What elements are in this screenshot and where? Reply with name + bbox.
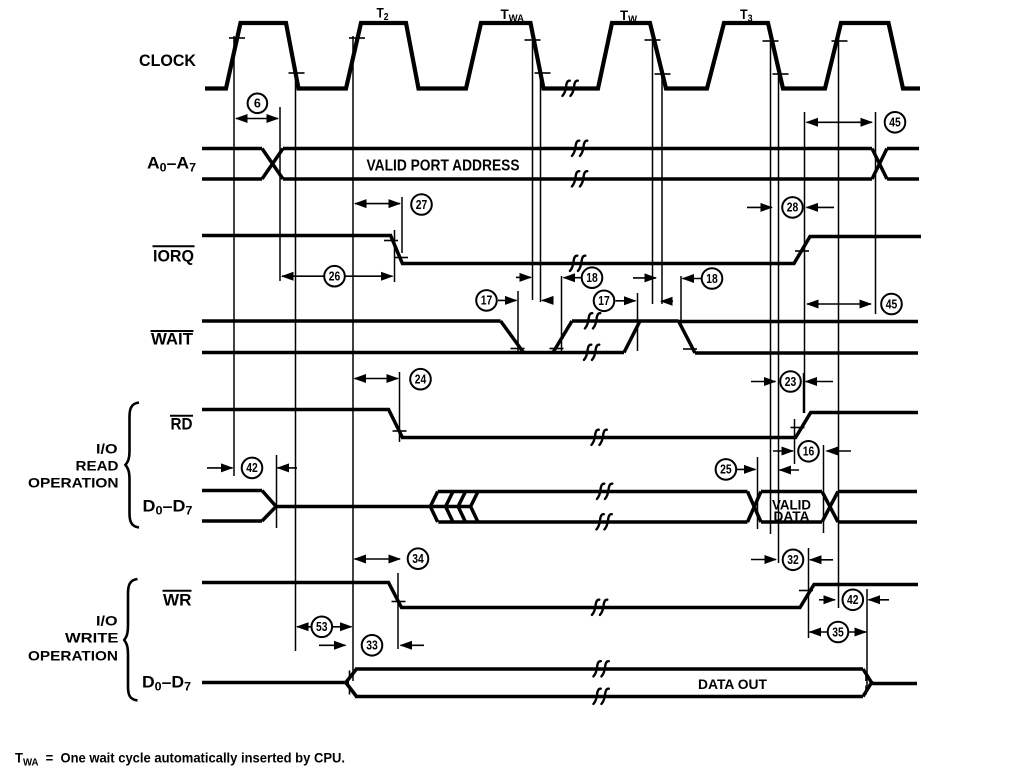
reference line clock rise T1 <box>233 36 235 476</box>
D0-D7 read bottom line <box>438 520 747 524</box>
D0-D7 read chevron 1 <box>430 492 437 507</box>
dim 26 arrow <box>282 275 393 277</box>
svg-text:WRITE: WRITE <box>65 629 119 645</box>
svg-text:17: 17 <box>598 294 610 308</box>
brace write operation <box>124 579 137 701</box>
tick clock rise T2 <box>349 37 365 39</box>
WR break <box>592 600 607 615</box>
dim 25 circle <box>716 459 737 480</box>
tick clock fall T1 <box>289 72 305 74</box>
D0-D7 write diverge <box>345 669 357 684</box>
dim 28 right arrow <box>807 206 835 208</box>
reference line T3 fall lower <box>778 75 780 563</box>
dim 16 circle <box>798 441 819 462</box>
reference line WAIT fall B <box>680 276 682 321</box>
tick WAIT fall A <box>511 348 525 350</box>
A0-A7 bus bottom valid <box>283 177 872 181</box>
dim 18b circle <box>702 268 723 289</box>
tick clock fall T3 upper <box>763 40 779 42</box>
dim 53 arrow <box>297 626 352 628</box>
dim 16 left arrow <box>773 450 793 452</box>
D0-D7 read chevron 4 <box>471 492 478 507</box>
D0-D7 write break bottom <box>593 689 608 704</box>
reference line valid data end <box>823 445 825 533</box>
dim 33 left arrow <box>319 644 346 646</box>
tick RD rise <box>791 427 805 429</box>
svg-text:42: 42 <box>246 461 258 475</box>
reference line dim24 right <box>399 372 401 442</box>
label IORQ overline <box>153 245 195 247</box>
dim 23 circle <box>780 371 801 392</box>
WAIT high break <box>585 313 600 328</box>
tick data out end top <box>865 672 867 681</box>
dim 35 circle <box>828 622 849 643</box>
tick data out end bottom <box>865 686 867 695</box>
D0-D7 read tristate line <box>276 505 471 509</box>
D0-D7 read top left <box>202 489 262 493</box>
dim 24 arrow <box>355 378 399 380</box>
clock break <box>562 81 577 96</box>
tick WAIT fall B <box>683 348 697 350</box>
reference line RD rise <box>794 419 796 464</box>
A0-A7 bus top right <box>887 147 919 151</box>
D0-D7 write top line <box>355 667 863 671</box>
D0-D7 read bottom left <box>202 519 262 523</box>
dim 6 arrow <box>236 118 278 120</box>
dim 34 circle <box>408 548 429 569</box>
IORQ waveform <box>202 236 921 264</box>
svg-text:25: 25 <box>720 463 732 477</box>
svg-text:18: 18 <box>586 271 598 285</box>
tick IORQ rise <box>795 250 809 252</box>
dim 32 right arrow <box>810 559 833 561</box>
D0-D7 valid bottom <box>761 520 822 524</box>
A0-A7 break top <box>572 141 587 156</box>
tick IORQ fall upper <box>384 240 398 242</box>
tick WR rise <box>799 590 813 592</box>
tick data out start bottom <box>349 686 351 695</box>
reference line WR fall <box>397 573 399 649</box>
dim 18b right arrow <box>683 278 702 280</box>
dim 42 circle write <box>843 590 864 611</box>
D0-D7 read crossover left <box>748 492 762 523</box>
svg-text:33: 33 <box>366 639 378 653</box>
dim 6 circle <box>248 94 268 114</box>
reference line dim27 right <box>401 197 403 253</box>
D0-D7 read top line <box>438 490 748 494</box>
svg-text:34: 34 <box>412 552 424 566</box>
tick clock fall T3 lower <box>773 73 789 75</box>
D0-D7 read break bottom <box>596 514 611 529</box>
A0-A7 crossover left <box>262 149 283 180</box>
reference line TWA fall upper <box>532 41 534 300</box>
reference line D0-D7 read converge <box>276 455 278 528</box>
dim 17a left arrow <box>498 299 517 301</box>
reference line data out end <box>866 589 868 686</box>
tick IORQ fall lower <box>394 257 408 259</box>
svg-text:42: 42 <box>847 593 859 607</box>
reference line valid data start <box>757 457 759 529</box>
dim 18a circle <box>582 267 603 288</box>
A0-A7 crossover right <box>872 149 887 180</box>
dim 45 circle top <box>885 112 906 133</box>
D0-D7 write tail line <box>871 682 917 686</box>
dim 25 left arrow <box>737 468 756 470</box>
svg-text:6: 6 <box>254 97 261 111</box>
reference line clock fall T1 <box>295 74 297 651</box>
reference line address change <box>875 112 877 314</box>
WAIT rise A <box>553 321 572 353</box>
RD break <box>591 430 606 445</box>
dim 42 circle read <box>242 458 263 479</box>
D0-D7 write converge <box>863 669 873 684</box>
svg-text:16: 16 <box>803 445 815 459</box>
dim 17a right arrow <box>542 299 553 301</box>
svg-text:D0–D7: D0–D7 <box>143 497 193 518</box>
dim 42 right arrow read <box>278 467 298 469</box>
svg-text:53: 53 <box>316 620 328 634</box>
WAIT high line left <box>202 319 501 323</box>
svg-text:VALID PORT ADDRESS: VALID PORT ADDRESS <box>367 158 520 175</box>
dim 42 left arrow read <box>207 467 233 469</box>
dim 33 right arrow <box>401 644 425 646</box>
tick RD fall <box>393 430 407 432</box>
svg-text:32: 32 <box>787 553 799 567</box>
reference line WAIT rise A <box>561 276 563 351</box>
svg-text:OPERATION: OPERATION <box>28 475 119 491</box>
D0-D7 write tristate line <box>202 681 349 685</box>
svg-text:DATA OUT: DATA OUT <box>698 676 767 692</box>
dim 26 circle <box>324 266 345 287</box>
dim 28 circle <box>782 197 803 218</box>
svg-text:I/O: I/O <box>96 612 118 628</box>
dim 34 arrow <box>355 558 401 560</box>
reference line WAIT rise B <box>637 293 639 351</box>
dim 27 arrow <box>355 203 400 205</box>
WR waveform <box>202 583 918 608</box>
A0-A7 break bottom <box>572 171 587 186</box>
svg-text:WAIT: WAIT <box>151 330 194 349</box>
dim 16 right arrow <box>827 450 852 452</box>
WAIT high line mid <box>572 319 679 323</box>
tick data out start top <box>349 671 351 680</box>
dim 33 circle <box>362 635 383 656</box>
RD waveform <box>202 410 918 438</box>
A0-A7 bus top left <box>202 147 262 151</box>
svg-text:WR: WR <box>163 591 192 610</box>
D0-D7 read chevron 3 <box>458 492 465 507</box>
WAIT fall A <box>501 321 524 353</box>
reference line IORQ fall <box>394 230 396 282</box>
dim 18a left arrow <box>516 276 531 278</box>
svg-text:23: 23 <box>785 375 797 389</box>
reference line WAIT fall <box>517 291 519 351</box>
dim 17b circle <box>594 291 615 312</box>
WAIT low line right <box>695 351 918 355</box>
dim 32 left arrow <box>751 559 776 561</box>
dim 42 left arrow write <box>819 599 835 601</box>
WAIT low line <box>202 351 624 355</box>
dim 18b left arrow <box>633 277 656 279</box>
dim 17a circle <box>476 290 497 311</box>
svg-text:CLOCK: CLOCK <box>139 51 197 70</box>
tick clock fall TWA upper <box>525 39 541 41</box>
svg-text:18: 18 <box>706 272 718 286</box>
svg-text:IORQ: IORQ <box>153 247 194 266</box>
tick clock rise T1 <box>229 37 245 39</box>
reference line dim23 right <box>803 373 805 413</box>
WAIT low break <box>584 345 599 360</box>
svg-text:26: 26 <box>329 270 341 284</box>
svg-text:45: 45 <box>889 116 901 130</box>
reference line TW fall lower <box>661 74 663 304</box>
D0-D7 valid top <box>761 490 822 494</box>
dim 45 arrow wait <box>807 303 871 305</box>
D0-D7 read top right <box>838 490 917 494</box>
svg-text:DATA: DATA <box>774 509 810 524</box>
tick clock rise after T3 <box>832 40 848 42</box>
A0-A7 bus bottom left <box>202 177 262 181</box>
dim 18a right arrow <box>564 277 582 279</box>
tick clock fall TW lower <box>655 73 671 75</box>
tick WR fall <box>392 601 406 603</box>
dim 25 right arrow <box>780 469 800 471</box>
dim 17b left arrow <box>616 300 636 302</box>
dim 42 right arrow write <box>869 599 890 601</box>
svg-text:D0–D7: D0–D7 <box>142 673 191 694</box>
svg-text:A0–A7: A0–A7 <box>147 154 196 175</box>
svg-text:35: 35 <box>832 625 844 639</box>
svg-text:RD: RD <box>171 415 193 434</box>
dim 45 circle wait <box>881 294 902 315</box>
reference line clock rise 6 <box>838 36 840 608</box>
svg-text:OPERATION: OPERATION <box>28 648 118 664</box>
IORQ break <box>570 256 585 271</box>
dim 28 left arrow <box>747 206 772 208</box>
dim 23 left arrow <box>751 381 776 383</box>
label RD overline <box>170 415 193 417</box>
dim 35 arrow <box>810 631 867 633</box>
WAIT high line right <box>679 320 919 324</box>
dim 45 arrow top <box>807 121 873 123</box>
dim 32 circle <box>783 550 804 571</box>
dim 53 circle <box>312 617 333 638</box>
D0-D7 read bottom right <box>838 520 917 524</box>
reference line IORQ rise <box>804 112 806 413</box>
A0-A7 bus top valid <box>283 147 872 151</box>
dim 24 circle <box>410 369 431 390</box>
reference line TW fall upper <box>652 41 654 304</box>
clock waveform <box>205 23 920 89</box>
A0-A7 bus bottom right <box>887 177 919 181</box>
tick clock fall TW upper <box>645 39 661 41</box>
WAIT rise B <box>624 321 640 353</box>
dim 17b right arrow <box>661 300 673 302</box>
svg-text:27: 27 <box>416 198 428 212</box>
brace read operation <box>125 403 139 528</box>
tick clock fall TWA lower <box>535 72 551 74</box>
label WAIT overline <box>151 330 194 332</box>
reference line address valid <box>279 107 281 281</box>
D0-D7 read crossover right <box>822 492 838 523</box>
reference line T3 fall upper <box>770 42 772 534</box>
label WR overline <box>163 590 192 592</box>
D0-D7 write break top <box>593 661 608 676</box>
D0-D7 read converge <box>262 491 278 509</box>
svg-text:45: 45 <box>886 297 898 311</box>
svg-text:28: 28 <box>787 201 799 215</box>
D0-D7 write bottom line <box>355 695 863 699</box>
svg-text:24: 24 <box>415 373 427 387</box>
reference line TWA fall lower <box>540 74 542 302</box>
svg-text:READ: READ <box>76 458 119 474</box>
dim 23 right arrow <box>806 381 834 383</box>
tick WAIT rise A <box>550 348 564 350</box>
reference line WR rise right <box>808 548 810 638</box>
svg-text:I/O: I/O <box>96 441 118 457</box>
WAIT fall B <box>679 321 696 353</box>
dim 27 circle <box>411 194 432 215</box>
D0-D7 read chevron 2 <box>446 492 453 507</box>
D0-D7 read break top <box>597 484 612 499</box>
svg-text:17: 17 <box>481 294 493 308</box>
reference line clock rise T2 <box>352 36 354 681</box>
